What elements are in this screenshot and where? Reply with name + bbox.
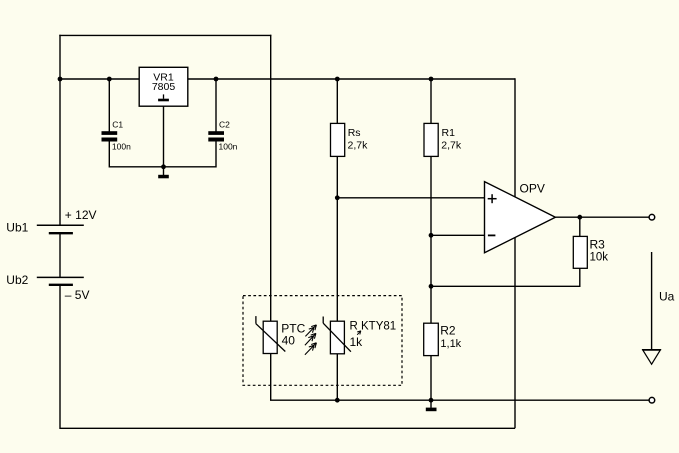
terminal circle lower output (649, 397, 655, 403)
wire op-amp output (555, 216, 649, 218)
ground symbol under filter (158, 167, 169, 179)
node filter-ground (161, 164, 166, 169)
svg-text:Ua: Ua (659, 290, 675, 304)
Ua voltage arrow (642, 252, 675, 364)
node rail-left (58, 77, 63, 82)
wire KTY bottom (336, 354, 338, 400)
node KTY bottom junction (335, 398, 340, 403)
svg-text:7805: 7805 (152, 81, 176, 93)
wire to op-amp - input (431, 234, 485, 236)
wire R2 bottom (430, 356, 432, 401)
node C1-rail (107, 77, 112, 82)
svg-text:– 5V: – 5V (65, 288, 90, 302)
svg-text:40: 40 (282, 334, 296, 348)
battery Ub1 (6, 208, 96, 234)
node R1-rail (429, 77, 434, 82)
node noninverting input junction (335, 195, 340, 200)
svg-text:2,7k: 2,7k (441, 139, 462, 151)
svg-text:OPV: OPV (520, 182, 545, 196)
resistor R1 (424, 123, 462, 156)
svg-text:1,1k: 1,1k (440, 338, 461, 350)
wire Rs branch top (336, 79, 338, 123)
svg-text:100n: 100n (219, 142, 238, 152)
svg-text:2,7k: 2,7k (348, 139, 369, 151)
dashed sensor box (243, 296, 402, 386)
svg-text:Ub2: Ub2 (6, 273, 28, 287)
svg-text:R KTY81: R KTY81 (350, 321, 397, 333)
thermistor R KTY81 (323, 317, 396, 354)
svg-text:1k: 1k (350, 335, 364, 349)
svg-text:100n: 100n (112, 142, 131, 152)
wire top loop horizontal (59, 34, 271, 36)
wire left vertical (top rail to battery) (59, 35, 61, 226)
svg-text:R2: R2 (440, 324, 456, 338)
regulator VR1 box (139, 67, 188, 106)
wire C2 bottom to ground node (164, 141, 217, 166)
heat arrows (305, 325, 317, 355)
node C2-rail (214, 77, 219, 82)
svg-text:C2: C2 (219, 119, 230, 129)
wire battery down and bottom return (60, 285, 515, 429)
wire feedback from R3 bottom (431, 268, 580, 286)
capacitor C2 (208, 119, 237, 151)
capacitor C1 (102, 119, 132, 151)
node feedback junction (429, 284, 434, 289)
wire to op-amp + input (337, 197, 484, 199)
wire R1 branch top (430, 79, 432, 123)
wire VR1 output pin down (163, 106, 165, 167)
wire between batteries (59, 233, 61, 277)
wire C2 branch (215, 79, 217, 132)
wire C1 bottom to ground node (109, 141, 163, 166)
node inverting input junction (429, 233, 434, 238)
wire R1 bottom down to R2 (430, 156, 432, 323)
svg-text:R3: R3 (590, 238, 606, 252)
node Rs-rail (335, 77, 340, 82)
svg-text:Ub1: Ub1 (6, 221, 28, 235)
wire C1 branch (108, 79, 110, 132)
wire Rs bottom to KTY top (336, 156, 338, 321)
resistor R3 (573, 236, 608, 268)
ground symbol at R2 (426, 400, 437, 411)
wire R3 top (579, 217, 581, 236)
op-amp U1 OPV (485, 182, 556, 253)
node output R3 branch (577, 215, 582, 220)
wire main +5V rail (60, 78, 515, 80)
resistor Rs (331, 123, 369, 156)
svg-text:R1: R1 (442, 127, 456, 139)
wire top loop vertical to PTC (270, 35, 272, 322)
terminal circle output (649, 214, 655, 220)
wire PTC bottom and lower output line (271, 354, 649, 401)
svg-text:Rs: Rs (348, 127, 361, 139)
thermistor PTC (256, 316, 306, 353)
resistor R2 (424, 323, 462, 355)
wire right vertical x515 (514, 78, 516, 428)
battery Ub2 (6, 273, 89, 302)
svg-text:10k: 10k (590, 252, 609, 264)
svg-text:C1: C1 (112, 119, 123, 129)
svg-text:+ 12V: + 12V (65, 208, 97, 222)
node R2 ground junction (429, 398, 434, 403)
